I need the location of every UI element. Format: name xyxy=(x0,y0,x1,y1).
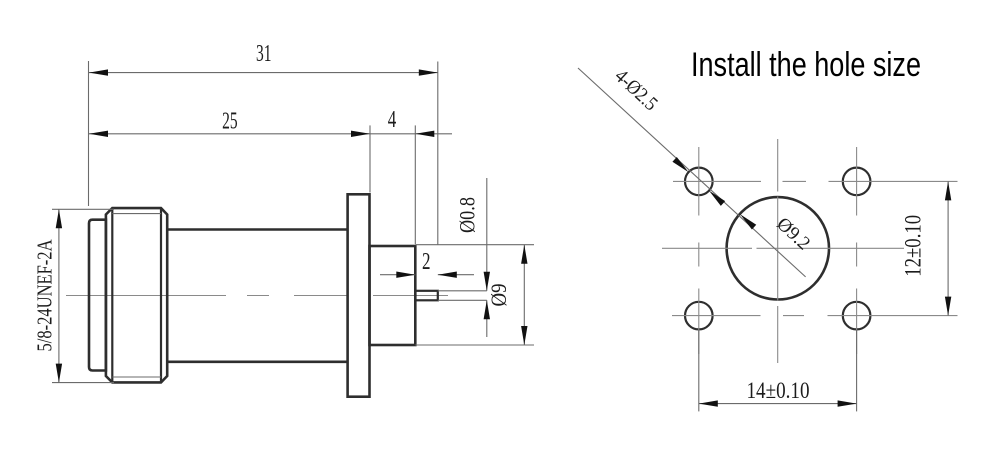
ext line front face xyxy=(88,61,90,206)
main body top line xyxy=(167,228,347,231)
dim D9 ext bottom xyxy=(415,344,534,346)
dim 14 line xyxy=(699,403,857,405)
column centerline right xyxy=(856,147,858,354)
center pin xyxy=(415,291,438,301)
nut chamfer line top xyxy=(112,213,161,215)
svg-text:2: 2 xyxy=(422,249,431,275)
svg-text:4: 4 xyxy=(388,107,397,133)
nut inner vertical right xyxy=(160,208,162,382)
leader arrow at big circle edge xyxy=(738,212,756,230)
svg-text:Ø0.8: Ø0.8 xyxy=(455,197,480,233)
flange xyxy=(348,194,370,396)
big circle vertical centerline xyxy=(777,139,779,363)
column centerline left xyxy=(698,147,700,354)
big circle horizontal centerline xyxy=(662,247,904,249)
coupling nut outline xyxy=(106,208,167,382)
ext line pin tip xyxy=(437,62,439,245)
small hole top-right xyxy=(843,168,871,196)
ext line rear body end xyxy=(414,125,416,244)
svg-text:12±0.10: 12±0.10 xyxy=(901,215,926,277)
ext line flange rear face xyxy=(369,125,371,192)
row centerline bottom xyxy=(672,315,958,317)
leader line 45deg xyxy=(578,68,806,277)
rear body xyxy=(370,246,416,345)
row centerline top xyxy=(673,180,958,182)
dim 31 line xyxy=(89,72,438,74)
dim 14 ext left xyxy=(698,330,700,411)
dim 12 line xyxy=(947,181,949,315)
dim 5/8-24UNEF-2A ext top xyxy=(52,208,114,210)
dim 2 line left xyxy=(380,274,415,276)
svg-text:25: 25 xyxy=(222,109,238,135)
main body bottom line xyxy=(167,360,347,363)
dim D0.8 line upper xyxy=(486,178,488,291)
dim D0.8 ext top xyxy=(438,290,487,292)
svg-text:4-Ø2.5: 4-Ø2.5 xyxy=(610,65,662,115)
leader arrow at small hole lower edge xyxy=(707,188,725,206)
leader arrow at small hole upper edge xyxy=(672,157,690,175)
svg-text:14±0.10: 14±0.10 xyxy=(747,378,810,403)
front barrel (thread section) xyxy=(89,220,106,371)
dim 2 line right xyxy=(438,274,474,276)
big hole circle D9.2 xyxy=(727,197,829,299)
small hole bottom-right xyxy=(843,302,871,330)
centerline main axis xyxy=(66,295,448,297)
svg-text:Install the hole size: Install the hole size xyxy=(691,46,921,84)
dim 14 ext right xyxy=(856,330,858,411)
dim D0.8 ext bottom xyxy=(438,299,487,301)
svg-text:31: 31 xyxy=(256,41,272,67)
svg-text:Ø9: Ø9 xyxy=(486,284,511,307)
small hole top-left xyxy=(685,168,713,196)
dim D9 ext top xyxy=(415,244,534,246)
small hole bottom-left xyxy=(685,302,713,330)
nut chamfer line bottom xyxy=(112,376,161,378)
dim 5/8-24UNEF-2A line xyxy=(58,209,60,382)
dim D9 line xyxy=(523,245,525,345)
nut inner vertical left xyxy=(111,208,113,382)
dim 25 line xyxy=(89,133,370,135)
dim D0.8 line lower xyxy=(486,300,488,337)
svg-text:5/8-24UNEF-2A: 5/8-24UNEF-2A xyxy=(33,239,57,352)
dim 4 line xyxy=(370,133,415,135)
dim 5/8-24UNEF-2A ext bottom xyxy=(52,382,114,384)
